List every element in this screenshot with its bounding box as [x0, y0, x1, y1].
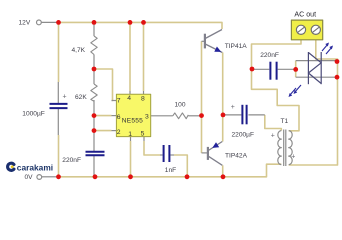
svg-text:5: 5: [141, 130, 145, 137]
svg-text:220nF: 220nF: [62, 157, 81, 164]
svg-text:T1: T1: [281, 118, 289, 125]
svg-text:4,7K: 4,7K: [72, 47, 86, 54]
svg-text:+: +: [291, 154, 295, 161]
svg-text:+: +: [63, 94, 67, 101]
svg-text:100: 100: [175, 102, 186, 109]
svg-text:2200µF: 2200µF: [232, 132, 255, 139]
svg-text:1: 1: [128, 131, 132, 138]
svg-text:TIP41A: TIP41A: [225, 43, 248, 50]
svg-text:8: 8: [141, 95, 145, 102]
svg-text:2: 2: [117, 129, 121, 136]
svg-text:3: 3: [145, 113, 149, 120]
svg-text:+: +: [271, 133, 275, 140]
svg-text:carakami: carakami: [17, 162, 53, 172]
svg-text:220nF: 220nF: [260, 52, 279, 59]
svg-text:7: 7: [117, 97, 121, 104]
svg-text:1000µF: 1000µF: [22, 110, 45, 117]
svg-text:AC out: AC out: [294, 10, 316, 18]
svg-text:1nF: 1nF: [165, 167, 176, 174]
svg-text:TIP42A: TIP42A: [225, 152, 248, 159]
svg-text:NE555: NE555: [122, 117, 143, 124]
svg-text:0V: 0V: [25, 174, 34, 181]
svg-text:62K: 62K: [75, 94, 87, 101]
svg-text:+: +: [231, 104, 235, 111]
svg-text:6: 6: [117, 114, 121, 121]
svg-text:12V: 12V: [19, 20, 31, 27]
svg-text:4: 4: [127, 95, 131, 102]
